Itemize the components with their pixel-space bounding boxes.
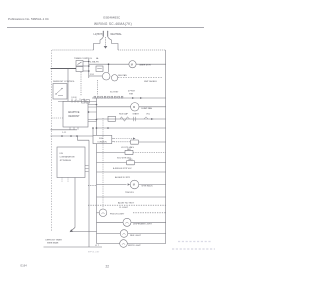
timer motor M1 [129,61,136,68]
svg-text:TRM VLV: TRM VLV [125,192,134,194]
svg-text:DISPENSER LIGHT: DISPENSER LIGHT [133,224,152,226]
signal box pin 1 [112,138,114,140]
dispenser bottom dash 1 [61,178,63,183]
ground symbol [104,46,108,49]
U1 right pin 1 [88,104,97,106]
U1 left pin [52,117,64,119]
svg-text:MDTR LIGHT: MDTR LIGHT [128,245,141,247]
U1 bottom pin 1 [69,127,71,130]
valve 2 to bus [133,151,166,153]
bottom connector wire [71,231,97,233]
junction n4 [92,127,94,129]
mid wire [97,196,166,198]
U1 bottom pin rail [51,129,78,131]
wire timer common vertical [88,59,90,78]
ref light wire left [97,233,121,235]
water valve 2 [125,150,133,154]
terminal strip rail [92,97,166,99]
pin stub timer 2 [83,61,89,63]
U1 top pin 2 [75,99,77,102]
svg-text:WIRE NEAR: WIRE NEAR [47,241,59,244]
svg-text:JITTERBUG: JITTERBUG [60,160,72,162]
U1 right pin 4 [88,119,97,121]
valve 3 to bus [135,162,166,164]
defrost timer inner contact [78,62,82,65]
svg-text:ADAPTIVE: ADAPTIVE [68,111,80,114]
connector glyph box [82,100,85,103]
cold control inner text tick [97,68,102,70]
defrost timer contact box 2 [76,67,83,72]
svg-text:4 PRST: 4 PRST [128,91,136,93]
lamp L3 filament [123,233,126,234]
svg-text:CL LIGHT: CL LIGHT [119,207,129,209]
water valve 3 [127,161,135,165]
svg-text:1 4 1: 1 4 1 [62,132,66,134]
water valve 1 [131,140,139,144]
junction n1 [61,135,63,137]
wire L1 drop [94,44,101,51]
main horizontal net [51,135,94,137]
legend row 1 [178,241,212,243]
junction U1 pin b [88,111,90,113]
freezer light lamp L1 [99,209,107,217]
svg-text:SMT SHIELD: SMT SHIELD [144,81,158,83]
lamp L4 filament [122,243,125,244]
wire x75 vertical [74,178,76,228]
svg-text:ICE: ICE [60,153,64,155]
freezer boundary dashed [88,184,97,186]
lamp L1 stub [97,212,100,214]
U1 top pin 3 [79,99,81,102]
wire dashed drop b [97,80,99,96]
auger motor feed [97,184,127,186]
svg-text:DEFROST: DEFROST [69,116,81,118]
U1 bottom pin 3 [77,127,79,130]
junction compressor a [96,127,98,129]
U1 top pin 1 [71,99,73,102]
wire dashed drop a [80,72,82,96]
valve 1 to bus [139,141,166,143]
svg-text:TIMER CONTROL: TIMER CONTROL [74,58,93,60]
header rule [7,27,204,29]
auger motor to bus [139,184,166,186]
tick b [74,100,76,103]
svg-text:DBL PAN: DBL PAN [118,74,127,77]
ground pin wire [105,37,107,46]
valve 1 wire dashed [114,141,131,143]
U1 bottom pin 2 [73,127,75,130]
wire shield dashed [118,77,163,79]
upper auger wire [97,171,166,173]
run capacitor zigzag [120,117,130,121]
junction compressor b [107,127,109,129]
evap fan feed [97,106,131,108]
junction n3 [76,135,78,137]
wire left vertical main upper [96,98,98,135]
junction U1 pin c [96,119,98,121]
svg-text:TIMER MTR: TIMER MTR [139,65,152,67]
evap fan to bus [139,106,166,108]
tick a [71,100,73,103]
svg-text:GSE464B3C: GSE464B3C [103,16,121,20]
svg-text:WTR RACK: WTR RACK [142,185,154,188]
svg-text:M: M [133,183,135,187]
wire neutral bus vertical [165,50,167,244]
dashed drop x103 [102,118,104,209]
defrost heater circle [111,75,117,81]
step wire from net [78,136,90,140]
svg-text:COMMON: COMMON [97,141,107,143]
svg-text:(MK): (MK) [127,149,131,151]
U1 top pin 4 [83,99,85,102]
svg-text:ADJST NO TEXT: ADJST NO TEXT [118,201,135,204]
valve 3 wire [97,162,127,164]
svg-text:Publications No. 5995A1-1 04: Publications No. 5995A1-1 04 [8,17,49,21]
tick c [77,100,79,103]
evap fan motor M2 [131,103,139,111]
svg-text:M: M [133,105,135,109]
compressor relay box [108,116,116,121]
valve 2 wire [97,151,126,153]
junction cold control [108,63,110,65]
svg-text:AUGER FJ STR: AUGER FJ STR [115,176,131,179]
svg-text:DEFROST CONTROL: DEFROST CONTROL [53,81,75,83]
cabinet boundary left [50,50,52,232]
compressor row wire [97,118,166,120]
svg-text:E164: E164 [21,264,28,268]
wire neutral rail right [118,49,166,51]
terminal strip pins [94,96,123,98]
wire defrost branch vertical [67,68,69,101]
overload arrow [151,118,154,120]
wire left vertical main lower [96,144,98,244]
svg-text:START: START [133,113,140,116]
wire timer motor to bus [136,63,166,65]
junction timer pin 2 [88,61,90,63]
prong tip dot neutral [107,31,108,32]
dispenser pin 1 [85,165,89,167]
dispenser bottom dash 2 [67,178,69,183]
lamp L2 filament [125,222,128,223]
strip arrow 1 [132,97,134,99]
drop arrowhead [70,229,73,232]
pin stub timer 3 [83,70,89,72]
svg-text:EPPOL LIST: EPPOL LIST [88,252,100,254]
svg-text:RUN CAP: RUN CAP [119,113,129,116]
plug P1 body flare right [108,37,112,44]
wire to timer motor [89,63,129,65]
lower row wire [96,127,166,129]
svg-text:NEUTRAL: NEUTRAL [111,33,123,36]
svg-text:EVAP FAN: EVAP FAN [142,107,153,110]
U1 right pin 3 [88,111,97,113]
wire dashed to valves [114,138,133,140]
strip arrow 2 [140,97,142,99]
mid light lamp L4 [120,240,128,248]
ref light wire right [128,233,166,235]
wire L1 rail left [52,49,94,51]
ice dispenser assembly box [57,147,85,178]
signal common box [93,135,112,143]
defrost control box [53,84,67,100]
drop to thermostat [108,64,110,72]
auger motor M3 [130,180,139,189]
wire drop diagonal [71,228,76,232]
defrost timer contact box 1 [76,61,83,67]
dispenser light lamp L2 [123,218,131,226]
defrost control contact dot 2 [61,88,62,89]
plug P1 prong L1 [102,32,104,37]
mullion heater dashed [88,204,166,206]
svg-text:LR STD VALV: LR STD VALV [121,146,135,149]
svg-text:FRZ DR LIGHT: FRZ DR LIGHT [110,214,125,216]
junction n2 [70,135,72,137]
dispenser light wire left [97,221,124,223]
wire link to signal box [92,128,94,135]
start contact tick 2 [135,117,137,121]
svg-text:SC TEST: SC TEST [110,91,119,93]
svg-text:A SINGLE STR VLV: A SINGLE STR VLV [113,167,132,170]
bottom long wire [44,246,103,248]
overload break [144,117,148,119]
mid light wire left [97,243,120,245]
wire timer pin to thermostat [89,75,103,77]
connector glyph box 2 [86,100,89,103]
mid light wire right [127,243,165,245]
wire neutral drop [112,44,119,51]
signal box pin 2 [112,141,114,143]
defrost control pin stub [58,95,63,97]
svg-text:22: 22 [106,265,110,269]
dispenser pin 2 [85,168,89,170]
start contact tick 1 [133,117,135,121]
svg-text:L1(HOT): L1(HOT) [94,33,104,36]
svg-text:HTR: HTR [129,93,134,95]
lamp L1 dashed wire [133,212,166,214]
U1 right pin 5 [88,121,97,123]
svg-text:WIRING SC-46MA(7K): WIRING SC-46MA(7K) [94,22,132,26]
plug P1 body flare left [100,37,103,44]
svg-text:DEFROST TIMER: DEFROST TIMER [46,239,63,241]
svg-text:SOL WTR VLV: SOL WTR VLV [117,158,131,160]
wire x89 vertical [88,140,90,247]
junction U1 pin a [96,104,98,106]
ref light lamp L3 [120,230,128,238]
prong tip dot L1 [103,31,104,32]
lamp L1 filament [102,213,105,214]
junction timer pin 3 [88,70,90,72]
pin stub timer 4 [83,65,89,67]
dispenser pin 3 [85,171,89,173]
auger arrow [128,183,131,185]
dashed arrow [133,138,136,140]
defrost control switch blade [57,89,62,94]
svg-text:M: M [131,62,133,66]
dispenser light wire right [131,221,166,223]
defrost control contact dot 1 [55,93,56,94]
legend row 2 [172,248,215,250]
adaptive defrost control U1 [63,101,88,127]
junction timer pin 4 [88,65,90,67]
svg-text:CONTAINER W/: CONTAINER W/ [60,156,76,159]
cold control box [96,66,103,72]
wire lower control row [58,100,97,102]
wire feed to timer (dark) [51,67,77,69]
svg-text:REF LIGHT: REF LIGHT [130,235,142,237]
U1 right pin 2 [88,106,97,108]
defrost thermostat circle [102,72,110,80]
plug P1 prong neutral [107,32,109,37]
